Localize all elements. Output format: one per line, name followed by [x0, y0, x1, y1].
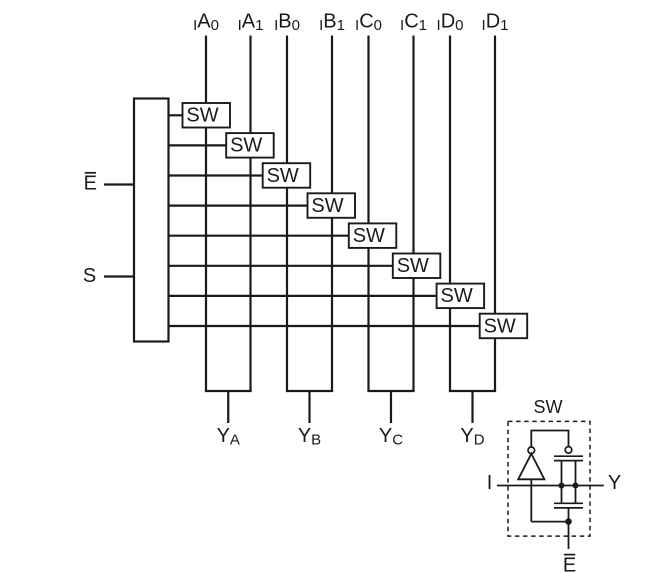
wire inverter input	[530, 479, 532, 521]
wire control line 2	[168, 144, 227, 146]
wire NMOS gate lead	[568, 508, 570, 522]
wire control line 6	[168, 265, 393, 267]
wire enable to inverter	[531, 521, 568, 523]
control block	[134, 99, 169, 342]
svg-text:SW: SW	[440, 285, 472, 307]
wire input D1 vertical	[494, 36, 496, 393]
transistor Q2 NMOS drain lead	[575, 486, 577, 504]
wire control line 8	[168, 325, 480, 327]
transistor Q1 PMOS bubble	[565, 447, 572, 454]
wire YB output bus	[286, 391, 333, 423]
svg-text:SW: SW	[353, 225, 385, 247]
switch detail dashed box	[508, 421, 590, 536]
svg-text:E: E	[563, 555, 576, 573]
wire input A0 vertical	[205, 36, 207, 393]
wire control line 3	[168, 174, 263, 176]
svg-text:SW: SW	[230, 135, 262, 157]
transistor Q1 drain lead	[575, 461, 577, 486]
wire enable lead	[568, 522, 570, 549]
svg-text:SW: SW	[534, 397, 563, 417]
junction node enable	[565, 518, 572, 525]
switch SW3	[263, 163, 311, 188]
op-amp U1 inverter bubble	[528, 447, 535, 454]
wire input B0 vertical	[286, 36, 288, 393]
switch SW8	[480, 314, 528, 339]
wire E input	[104, 183, 134, 185]
wire input A1 vertical	[249, 36, 251, 393]
op-amp U1 inverter triangle	[518, 454, 544, 480]
wire input B1 vertical	[331, 36, 333, 393]
wire S input	[104, 275, 134, 277]
switch SW5	[349, 223, 397, 248]
svg-text:SW: SW	[311, 195, 343, 217]
svg-text:SW: SW	[267, 165, 299, 187]
wire control line 7	[168, 295, 437, 297]
transistor Q1 source lead	[561, 461, 563, 486]
wire input D0 vertical	[449, 36, 451, 393]
transistor Q1 PMOS channel bar	[554, 460, 583, 462]
wire control line 4	[168, 205, 308, 207]
junction node Y side	[573, 483, 579, 489]
svg-text:SW: SW	[484, 315, 516, 337]
transistor Q2 NMOS channel bar	[554, 502, 583, 504]
wire YA output bus	[205, 391, 252, 423]
wire I to Y	[497, 485, 604, 487]
wire input C0 vertical	[367, 36, 369, 393]
transistor Q2 NMOS gate bar	[554, 507, 583, 509]
switch SW4	[308, 193, 356, 218]
label E enable (active low)	[563, 555, 576, 573]
switch SW6	[393, 254, 441, 279]
wire YD output bus	[449, 391, 496, 423]
wire input C1 vertical	[412, 36, 414, 393]
switch SW7	[437, 284, 485, 309]
wire control line 1	[168, 114, 183, 116]
wire inverter output to PMOS gate	[531, 431, 568, 448]
svg-text:Y: Y	[608, 472, 621, 494]
svg-text:SW: SW	[397, 255, 429, 277]
switch SW2	[226, 133, 274, 158]
svg-text:E: E	[84, 173, 97, 195]
wire control line 5	[168, 235, 349, 237]
transistor Q1 PMOS gate bar	[554, 455, 583, 457]
label E (enable, active low)	[84, 173, 97, 195]
svg-text:S: S	[83, 265, 96, 287]
wire YC output bus	[367, 391, 414, 423]
svg-text:I: I	[487, 472, 493, 494]
switch SW1	[183, 103, 231, 128]
junction node I side	[559, 483, 565, 489]
svg-text:SW: SW	[186, 105, 218, 127]
transistor Q2 NMOS source lead	[561, 486, 563, 504]
